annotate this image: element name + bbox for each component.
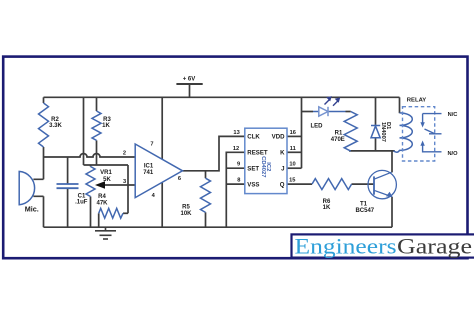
wire op-amp pin 4 to ground [161,182,163,227]
svg-text:J: J [281,166,284,173]
wire C1 top lead [67,157,69,184]
wire IC2 vdd/k/j to rail [287,135,302,137]
IC2 CD4027 box [245,128,287,193]
svg-text:SET: SET [247,166,259,173]
potentiometer VR1 [86,167,95,197]
svg-text:R4: R4 [98,194,106,200]
svg-text:8: 8 [237,177,240,183]
svg-text:RELAY: RELAY [407,97,426,103]
svg-text:10K: 10K [180,211,192,217]
diode D1 [371,126,380,138]
svg-text:1K: 1K [323,205,331,211]
svg-text:10: 10 [289,162,295,168]
wire mic bottom to ground rail [43,196,45,227]
wire VR1 top lead [90,165,92,167]
wire mic stubs [33,179,43,196]
relay N/O contact [423,145,442,152]
wire ground rail [44,226,393,228]
wire LED leads (blue) [313,111,346,113]
svg-text:11: 11 [290,146,296,152]
wire LED tap [302,111,314,113]
svg-text:VR1: VR1 [100,170,112,176]
wire C1 bottom lead [67,188,69,227]
wire emitter vertical [391,197,393,227]
svg-text:12: 12 [233,146,239,152]
wire Q to R6 [287,183,312,185]
svg-text:N/C: N/C [448,112,458,118]
wire inverting input line with crossover bumps [44,154,136,158]
wire R6 to base [352,183,375,185]
svg-text:+ 6V: + 6V [183,77,196,83]
wire VR1 bottom lead [90,197,92,228]
svg-text:.1uF: .1uF [75,200,88,206]
svg-text:3: 3 [123,179,126,185]
ground [95,227,116,239]
transistor emitter arrow [386,192,393,197]
svg-text:741: 741 [143,170,154,176]
resistor R1 [344,112,357,152]
svg-text:N/O: N/O [447,151,458,157]
svg-text:16: 16 [290,130,296,136]
wire R5 top lead [205,171,207,178]
wire R4 left lead to ground [98,213,100,227]
svg-text:CLK: CLK [247,134,260,141]
svg-text:5K: 5K [103,177,111,183]
transistor T1 [368,170,396,198]
wire reference node horizontal [84,164,129,166]
relay N/C contact [423,114,442,134]
capacitor C1 [57,184,79,188]
relay coil [394,113,413,152]
wire D1 bottom lead [375,138,377,151]
resistor R3 [92,111,101,140]
resistor R6 [312,179,352,190]
wire R3 bottom lead [96,140,98,165]
wire collector node line [349,150,395,152]
wire R2 bottom lead to mic node [43,147,45,179]
wire node down to pin3/R4 [127,165,129,213]
resistor R4 [99,208,123,218]
wire R3 top lead [96,97,98,111]
relay dashed box [403,107,435,161]
svg-text:BC547: BC547 [355,208,374,214]
wire D1 top lead [375,97,377,125]
wire op-amp pin 7 to rail [161,97,163,159]
wire +6V rail [44,96,400,98]
resistor R5 [201,178,211,212]
svg-text:Engineers: Engineers [295,234,397,259]
LED [319,107,328,116]
wire collector vertical [391,151,393,173]
wire VR1 wiper to pin 3 [104,184,136,186]
svg-text:R2: R2 [51,117,59,123]
wire R4 right lead [123,212,128,214]
svg-text:Garage: Garage [397,234,472,259]
IC2 pin names [247,134,285,189]
svg-text:13: 13 [233,130,239,136]
svg-text:LED: LED [311,123,324,129]
svg-text:7: 7 [150,142,153,148]
power +6V symbol [176,83,202,85]
wire LED to R1 [346,111,351,113]
svg-text:470E: 470E [331,137,345,143]
svg-text:1K: 1K [102,123,110,129]
op-amp IC1 741 [135,144,182,198]
svg-text:47K: 47K [96,201,108,207]
wire +6V drop to reference node [83,97,85,165]
svg-text:Mic.: Mic. [25,205,39,214]
svg-text:VSS: VSS [247,181,259,188]
svg-text:VDD: VDD [272,134,285,141]
svg-text:Q: Q [280,181,285,188]
logo box [292,234,474,257]
svg-text:6: 6 [178,176,181,182]
svg-text:R1: R1 [335,131,343,137]
svg-text:K: K [280,150,285,157]
resistor R2 [39,103,49,147]
svg-text:3.3K: 3.3K [49,123,62,129]
svg-text:IC1: IC1 [144,164,154,170]
svg-text:9: 9 [237,162,240,168]
wire IC2 reset/set/vss to ground [226,152,245,227]
wire rail corner to relay coil [399,97,401,113]
potentiometer VR1 wiper arrow [95,181,105,189]
svg-text:R3: R3 [103,117,111,123]
microphone [19,171,34,204]
wire R5 bottom lead [205,212,207,227]
wire op-amp output [183,136,245,170]
svg-text:T1: T1 [360,202,368,208]
svg-text:R5: R5 [182,205,190,211]
LED arrows [325,96,341,106]
svg-text:2: 2 [123,151,126,157]
svg-text:15: 15 [289,177,295,183]
wire R2 top lead [43,97,45,103]
